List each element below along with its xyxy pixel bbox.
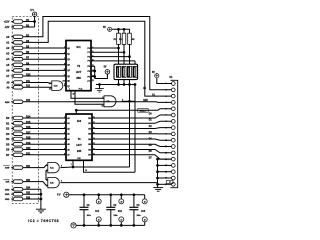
switch S1 element 2 <box>122 66 126 77</box>
wire IC3 B5 to K1 pin 11 <box>92 144 171 146</box>
wire A1 to connector K1 pin 3 <box>23 21 172 96</box>
resistor R8 (address line A5) <box>11 64 13 66</box>
junction pullup R1 <box>118 28 120 30</box>
svg-text:A3: A3 <box>67 133 70 136</box>
resistor R1 (row +12V) <box>11 21 13 23</box>
svg-text:-12V: -12V <box>4 26 9 29</box>
AND gate IC2c <box>104 96 116 107</box>
svg-text:A0: A0 <box>143 87 147 90</box>
wire A5 to IC1 pin <box>23 64 66 66</box>
resistor R19 (data line D5) <box>11 143 13 145</box>
connector K1 pin 3 <box>171 94 175 98</box>
connector K1 pin 17 <box>171 182 175 186</box>
svg-text:IOW: IOW <box>5 168 10 170</box>
svg-text:A6: A6 <box>67 148 70 151</box>
label box near K1 pin17 <box>167 180 173 183</box>
svg-text:5: 5 <box>46 186 47 188</box>
svg-text:C2: C2 <box>113 204 117 207</box>
wire 5V rail (bottom) <box>69 194 145 196</box>
wire D6 to IC3 pin <box>23 149 66 151</box>
svg-text:D6: D6 <box>149 151 153 153</box>
svg-text:D4: D4 <box>6 137 10 141</box>
connector K1 pin 5 <box>171 107 175 111</box>
connector K1 pin 15 <box>171 170 175 174</box>
svg-text:11: 11 <box>64 69 66 71</box>
capacitor C3 <box>133 195 135 208</box>
svg-text:Q7: Q7 <box>67 86 70 88</box>
resistor R26 (GND line) <box>11 198 13 200</box>
svg-text:+12V: +12V <box>4 21 10 24</box>
wire D7 to IC3 pin <box>23 154 66 156</box>
junction IC2a output on DIR line <box>72 166 74 168</box>
svg-text:GND: GND <box>5 199 10 201</box>
junction S1-1 <box>118 84 120 86</box>
svg-text:9: 9 <box>165 134 166 136</box>
svg-text:D1: D1 <box>6 121 10 125</box>
wire 5V to tie line <box>95 74 108 78</box>
ground symbol (middle) <box>99 85 101 89</box>
svg-text:IC2b: IC2b <box>50 183 54 185</box>
wire 5V rail to pullups <box>112 28 130 30</box>
svg-text:HCT: HCT <box>76 143 82 147</box>
connector K1 pin 1 <box>171 82 175 86</box>
wire D0 to IC3 pin <box>23 117 66 119</box>
junction GND rows <box>40 193 42 195</box>
connector K1 pin 7 <box>171 119 175 123</box>
svg-text:5 V: 5 V <box>30 9 34 12</box>
connector K1 pin 8 <box>171 126 175 130</box>
5V supply terminal (top left) <box>32 12 36 16</box>
wire D5 to IC3 pin <box>23 143 66 145</box>
wire IC1 P4-P6 tie <box>91 65 95 67</box>
5V supply terminal (connector) <box>155 74 159 78</box>
wire IC2c output <box>122 100 136 102</box>
wire IC2a output to DIR line <box>60 166 73 169</box>
ground symbol (connector) <box>153 187 163 189</box>
resistor R7 (address line A4) <box>11 58 13 60</box>
svg-text:IC2d: IC2d <box>54 86 58 88</box>
wire IC1 P3 to switch S1-4 <box>91 60 135 62</box>
AND gate IC2d <box>52 81 63 91</box>
wire IOW to IC2a input 1 <box>23 165 48 167</box>
resistor R5 (address line A2) <box>11 47 13 49</box>
svg-text:6: 6 <box>165 115 166 117</box>
wire IC1 P=Q pin19 to IC2c input 1 <box>71 91 104 99</box>
wire IC1 P0 to switch S1-1 <box>91 47 119 49</box>
wire A0 to connector K1 pin 2 <box>23 17 172 90</box>
wire A2 to IC1 pin <box>23 47 66 49</box>
wire IC3 B0 to K1 pin 6 <box>92 115 171 118</box>
5V supply terminal (top middle) <box>108 27 112 31</box>
switch S1 element 4 <box>133 66 137 77</box>
svg-text:5 V: 5 V <box>57 194 61 197</box>
svg-text:12: 12 <box>49 83 51 85</box>
resistor R18 (data line D4) <box>11 138 13 140</box>
svg-text:D0: D0 <box>6 116 10 120</box>
resistor R21 (data line D7) <box>11 154 13 156</box>
wire GND common down <box>40 189 42 209</box>
svg-text:A7: A7 <box>67 154 70 157</box>
svg-text:A7: A7 <box>6 74 10 78</box>
IC1 pin7 stub <box>63 80 67 82</box>
wire A8 to IC2d input 1 <box>23 82 52 85</box>
wire GND rail (bottom) <box>76 224 145 226</box>
svg-text:20: 20 <box>98 201 100 203</box>
svg-text:A3: A3 <box>6 52 10 56</box>
svg-text:5V: 5V <box>104 66 107 69</box>
wire AEN to connector K1 pin 4 <box>23 101 172 104</box>
svg-text:8: 8 <box>122 99 123 101</box>
pullup resistor R3 <box>129 29 131 33</box>
IC2 ground pin circle <box>119 217 124 222</box>
resistor R23 (IOR line) <box>11 181 13 183</box>
pullup resistor R2 <box>123 29 125 33</box>
svg-text:A2: A2 <box>67 127 70 130</box>
op-amp-style IC1 74HCT688 comparator box <box>66 41 91 91</box>
IC3 supply pin circle <box>142 199 147 204</box>
connector K1 pin 6 <box>171 113 175 117</box>
DIP switch S1 box <box>114 64 138 79</box>
IC3 ground pin circle <box>142 217 147 222</box>
svg-text:13: 13 <box>49 89 51 91</box>
wire IC3 B6 to K1 pin 12 <box>92 150 171 153</box>
svg-text:IC2 = 74HCT08: IC2 = 74HCT08 <box>28 219 59 223</box>
connector K1 pin 9 <box>171 132 175 136</box>
wire IC3 B7 to K1 pin 13 <box>92 155 171 159</box>
svg-text:IOR: IOR <box>6 182 10 184</box>
IC3 select stub to K1 pin 5 <box>75 110 77 114</box>
wire GND row 3 <box>23 198 41 200</box>
wire GND row 1 <box>23 188 41 190</box>
switch S1 element 1 <box>116 66 120 77</box>
IC1 supply pin circle <box>96 199 101 204</box>
wire 5V to K1 pin 1 <box>157 78 172 84</box>
wire IC3 B4 to K1 pin 10 <box>92 139 171 140</box>
resistor R6 (address line A3) <box>11 53 13 55</box>
svg-text:D5: D5 <box>6 142 10 146</box>
switch S1 element 3 <box>127 66 131 77</box>
svg-text:10: 10 <box>101 105 103 107</box>
svg-text:A4: A4 <box>6 57 10 61</box>
junction S1-2 <box>123 84 125 86</box>
svg-text:20: 20 <box>144 201 146 203</box>
wire SELECT line <box>76 109 171 111</box>
resistor R12 (address line A9) <box>11 86 13 88</box>
svg-text:20: 20 <box>120 201 122 203</box>
resistor R2 (row -12V) <box>11 26 13 28</box>
ground terminal (bottom) <box>71 223 76 228</box>
resistor R22 (IOW line) <box>11 167 13 169</box>
svg-text:IC2a: IC2a <box>50 168 54 170</box>
IC1 ground pin circle <box>96 217 101 222</box>
IC2 supply pin circle <box>119 199 124 204</box>
svg-text:Q2: Q2 <box>67 59 70 61</box>
wire IC1 P1 to switch S1-2 <box>91 51 124 53</box>
svg-text:A5: A5 <box>67 143 70 146</box>
svg-text:R3: R3 <box>132 39 135 41</box>
svg-text:1: 1 <box>46 165 47 167</box>
connector K1 pin 16 <box>171 176 175 180</box>
svg-text:GND: GND <box>5 189 10 191</box>
junction pullup R1 bottom <box>118 44 120 48</box>
svg-text:A6: A6 <box>6 68 10 72</box>
resistor R11 (address line A8) <box>11 82 13 84</box>
K1 ground bus <box>157 159 159 187</box>
resistor R4 (address line A1) <box>11 41 13 43</box>
svg-text:Q6: Q6 <box>67 81 70 83</box>
svg-text:C3: C3 <box>137 204 141 207</box>
wire D4 to IC3 pin <box>23 138 66 140</box>
svg-text:1: 1 <box>71 164 72 166</box>
svg-text:7: 7 <box>165 121 166 123</box>
svg-text:245: 245 <box>77 149 82 153</box>
AND gate IC2a <box>48 162 59 172</box>
svg-text:Q4: Q4 <box>67 69 70 72</box>
junction rail-ground <box>99 84 101 86</box>
svg-text:1: 1 <box>69 89 70 91</box>
svg-text:5V: 5V <box>103 26 106 29</box>
svg-text:IC3: IC3 <box>77 119 82 123</box>
wire IC2c output down to IC3 enable <box>134 85 136 102</box>
svg-text:3: 3 <box>61 165 62 167</box>
svg-text:A1: A1 <box>67 122 70 125</box>
svg-text:10: 10 <box>98 219 100 221</box>
wire ground bus to K1 pin <box>158 183 172 185</box>
svg-text:5V: 5V <box>152 71 155 74</box>
resistor R14 (data line D0) <box>11 117 13 119</box>
wire IC2b output to connector <box>60 182 157 184</box>
wire A3 to IC1 pin <box>23 53 66 55</box>
capacitor C2 <box>110 195 112 208</box>
svg-text:4: 4 <box>165 102 166 104</box>
svg-text:K1: K1 <box>170 76 174 79</box>
svg-text:D7: D7 <box>6 153 10 157</box>
svg-text:74: 74 <box>78 137 81 141</box>
svg-text:74: 74 <box>77 64 80 68</box>
svg-text:A9: A9 <box>7 86 11 89</box>
svg-text:A8: A8 <box>7 82 11 85</box>
svg-text:D7: D7 <box>149 157 153 159</box>
5V supply terminal (IC1 pull) <box>105 70 110 75</box>
wire IC1 P2 to switch S1-3 <box>91 56 130 58</box>
svg-text:1: 1 <box>118 62 119 64</box>
svg-text:11: 11 <box>64 84 66 86</box>
svg-text:100n: 100n <box>137 215 141 217</box>
wire S1-3 line down to IC3 DIR <box>129 85 131 168</box>
connector K1 pin 4 <box>171 101 175 105</box>
svg-text:12: 12 <box>165 153 167 155</box>
connector K1 pin 13 <box>171 157 175 161</box>
wire IOR to IC2b input 2 <box>23 182 48 186</box>
svg-text:5: 5 <box>165 108 166 110</box>
svg-text:HCT: HCT <box>76 70 82 74</box>
connector K1 pin 14 <box>171 164 175 168</box>
resistor R10 (address line A7) <box>11 75 13 77</box>
wire 5V terminal down to pullup rows <box>34 16 36 27</box>
svg-text:D2: D2 <box>149 126 153 128</box>
capacitor C1 <box>83 195 85 208</box>
svg-text:6: 6 <box>61 180 62 182</box>
svg-text:A1: A1 <box>6 40 10 44</box>
wire ground bus to K1 pin <box>158 164 172 166</box>
svg-text:Q0: Q0 <box>67 48 70 50</box>
resistor R16 (data line D2) <box>11 128 13 130</box>
svg-text:Q5: Q5 <box>67 76 70 78</box>
svg-text:D0: D0 <box>149 113 153 115</box>
svg-text:11: 11 <box>165 146 167 148</box>
svg-text:A2: A2 <box>6 46 10 50</box>
connector K1 body <box>171 80 178 187</box>
svg-text:D2: D2 <box>6 127 10 131</box>
svg-text:IC1: IC1 <box>95 209 99 213</box>
svg-text:A0: A0 <box>6 35 10 39</box>
junction IC2c output / S1-3 line <box>129 100 131 102</box>
junction pullup R2 <box>123 28 125 30</box>
svg-text:IC3: IC3 <box>141 209 145 213</box>
svg-text:19: 19 <box>85 170 87 172</box>
svg-text:8: 8 <box>165 127 166 129</box>
svg-text:100n: 100n <box>87 215 91 217</box>
resistor R9 (address line A6) <box>11 69 13 71</box>
wire A9 to IC2d input 2 <box>23 86 52 89</box>
svg-text:Q3: Q3 <box>67 65 70 67</box>
svg-text:13: 13 <box>64 75 66 77</box>
svg-text:D5: D5 <box>149 145 153 147</box>
svg-text:AEN: AEN <box>5 101 10 104</box>
svg-text:19: 19 <box>73 94 75 96</box>
svg-text:GND: GND <box>5 194 10 196</box>
wire IC2d output to IC1 pin8 <box>64 85 66 87</box>
wire D1 to IC3 pin <box>23 122 66 124</box>
connector K1 pin 11 <box>171 145 175 149</box>
svg-text:A4: A4 <box>67 138 70 141</box>
AND gate IC2b <box>48 177 59 187</box>
wire D3 to IC3 pin <box>23 133 66 135</box>
5V supply terminal (bottom) <box>64 192 69 197</box>
junction pullup R2 bottom <box>123 44 125 52</box>
svg-text:9: 9 <box>102 97 103 99</box>
connector K1 pin 10 <box>171 138 175 142</box>
svg-text:AEN: AEN <box>143 99 148 102</box>
svg-text:D6: D6 <box>6 148 10 152</box>
svg-text:Q1: Q1 <box>67 53 70 55</box>
dashed bus-resistor network box <box>12 17 38 204</box>
svg-text:10: 10 <box>144 219 146 221</box>
svg-text:IC2c: IC2c <box>106 101 110 103</box>
svg-text:D3: D3 <box>6 132 10 136</box>
svg-text:2: 2 <box>165 90 166 92</box>
svg-text:18: 18 <box>92 80 94 82</box>
wire GND row 2 <box>23 193 41 195</box>
junction pullup R3 bottom <box>129 44 131 56</box>
svg-text:A0: A0 <box>67 117 70 120</box>
wire ground bus to K1 pin <box>158 158 172 160</box>
ground symbol (left) <box>36 208 46 210</box>
svg-text:10: 10 <box>120 219 122 221</box>
IC3 74HCT245 bus transceiver box <box>66 114 92 160</box>
connector K1 pin 12 <box>171 151 175 155</box>
svg-text:3: 3 <box>165 96 166 98</box>
resistor R15 (data line D1) <box>11 122 13 124</box>
switch common rail <box>118 80 120 85</box>
svg-text:SELECT: SELECT <box>140 110 148 112</box>
wire IC3 B2 to K1 pin 8 <box>92 127 171 130</box>
svg-text:17: 17 <box>169 182 171 184</box>
resistor R24 (GND line) <box>11 188 13 190</box>
junction node row1/5V <box>34 21 36 23</box>
svg-text:100n: 100n <box>113 215 117 217</box>
wire ground bus to K1 pin <box>158 177 172 179</box>
wire D2 to IC3 pin <box>23 128 66 130</box>
svg-text:D1: D1 <box>149 120 153 122</box>
wire ground bus to K1 pin <box>158 171 172 173</box>
wire IC3 B3 to K1 pin 9 <box>92 133 171 135</box>
svg-text:C1: C1 <box>87 204 91 207</box>
SELECT label box <box>138 109 148 113</box>
resistor R25 (GND line) <box>11 193 13 195</box>
resistor R3 (address line A0) <box>11 36 13 38</box>
wire A4 to IC1 pin <box>23 58 66 60</box>
wire A7 to IC1 pin <box>23 75 66 77</box>
wire A6 to IC1 pin <box>23 69 66 71</box>
svg-text:10: 10 <box>165 140 167 142</box>
svg-text:3: 3 <box>129 62 130 64</box>
wire IC3 B1 to K1 pin 7 <box>92 121 171 123</box>
resistor R20 (data line D6) <box>11 149 13 151</box>
svg-text:IC2: IC2 <box>118 209 122 213</box>
svg-text:4: 4 <box>135 62 136 64</box>
svg-text:IC1: IC1 <box>76 45 81 49</box>
svg-text:2: 2 <box>124 62 125 64</box>
pullup resistor R1 <box>118 29 120 33</box>
resistor R17 (data line D3) <box>11 133 13 135</box>
connector K1 pin 2 <box>171 88 175 92</box>
svg-text:688: 688 <box>76 76 81 80</box>
svg-text:A5: A5 <box>6 63 10 67</box>
wire IC1 enable stub to IC2c input 2 <box>75 91 104 105</box>
wire IC2a in2 to IC2b in1 <box>46 169 48 171</box>
resistor R13 (AEN line) <box>11 101 13 103</box>
